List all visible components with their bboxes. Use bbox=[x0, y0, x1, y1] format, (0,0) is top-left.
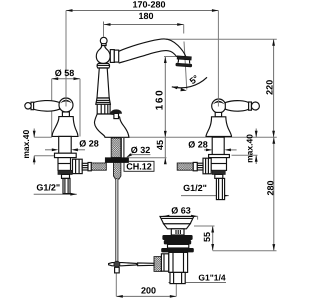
right handle bell bbox=[206, 117, 232, 137]
spout base bell bbox=[94, 114, 128, 137]
svg-text:G1"1/4: G1"1/4 bbox=[198, 273, 225, 283]
left valve body bbox=[58, 158, 71, 171]
drain band 2 bbox=[164, 240, 191, 244]
pop-up rod knob bbox=[111, 110, 122, 119]
right valve side outlet: hex nut bbox=[203, 158, 211, 174]
svg-text:55: 55 bbox=[202, 232, 212, 242]
spout top reference line for 220 bbox=[166, 38, 277, 40]
left valve threaded pipe G1/2 bbox=[91, 163, 106, 170]
right handle stem bbox=[215, 112, 221, 116]
spout column finial vase bbox=[96, 46, 110, 64]
spout aerator outlet bbox=[176, 56, 192, 67]
left handle bell bbox=[52, 117, 78, 137]
left handle ball bbox=[59, 98, 73, 112]
dimension 200 bbox=[116, 269, 176, 298]
left handle lever bbox=[25, 101, 60, 112]
dimension 220 bbox=[264, 39, 275, 137]
label CH.12 bbox=[124, 161, 154, 171]
drain plug bbox=[171, 229, 184, 235]
svg-text:max.40: max.40 bbox=[21, 130, 31, 159]
spout tube bbox=[119, 39, 186, 56]
right valve washer disc bbox=[209, 155, 230, 158]
svg-text:Ø 32: Ø 32 bbox=[131, 145, 151, 155]
dimension Ø58 bbox=[52, 68, 80, 137]
left valve side outlet: hex nut bbox=[73, 159, 83, 173]
left valve collar bbox=[62, 174, 70, 178]
spout column finial knob bbox=[100, 37, 107, 45]
drain tailpipe G1 1/4 bbox=[170, 272, 185, 283]
spout column faceted collar bbox=[97, 104, 110, 114]
pop-up link rod bbox=[138, 263, 154, 266]
right valve tailpipe bbox=[216, 178, 224, 199]
pop-up rod end cap bbox=[115, 267, 120, 273]
bottom reference line bbox=[213, 250, 277, 252]
svg-text:CH.12: CH.12 bbox=[126, 161, 152, 171]
dimension 160 bbox=[154, 57, 179, 138]
dimension Ø28 left bbox=[45, 139, 99, 152]
svg-text:G1/2": G1/2" bbox=[183, 183, 207, 193]
pop-up joint ball bbox=[114, 261, 120, 267]
spout column flare rings bbox=[96, 98, 111, 104]
svg-text:180: 180 bbox=[138, 11, 153, 21]
spout column base flare bbox=[97, 63, 109, 68]
left valve side outlet: fitting bbox=[82, 163, 88, 170]
drain gland nut bbox=[154, 257, 161, 272]
drain band 3 bbox=[161, 248, 194, 252]
spout column shaft bbox=[97, 68, 109, 98]
drain neck bbox=[164, 224, 191, 229]
svg-text:max.40: max.40 bbox=[245, 134, 255, 163]
svg-text:170-280: 170-280 bbox=[132, 0, 165, 10]
drain band 1 bbox=[162, 235, 192, 240]
shank below plate bbox=[114, 163, 121, 179]
left valve lower flange bbox=[58, 170, 72, 174]
right valve cylinder bbox=[212, 137, 224, 154]
right handle ball bbox=[212, 99, 226, 113]
svg-text:45: 45 bbox=[155, 140, 165, 150]
svg-text:200: 200 bbox=[141, 286, 156, 296]
left valve cylinder bbox=[59, 136, 71, 153]
drain light ring bbox=[168, 244, 189, 248]
svg-text:160: 160 bbox=[154, 89, 165, 111]
drain side port bbox=[161, 254, 168, 271]
dimension 280 bbox=[265, 137, 275, 250]
left valve washer disc bbox=[55, 153, 77, 157]
svg-text:Ø 28: Ø 28 bbox=[188, 140, 208, 150]
label G1/2 left bbox=[34, 182, 77, 195]
spout joint rings bbox=[110, 50, 114, 63]
svg-text:220: 220 bbox=[264, 80, 274, 95]
drain rim bbox=[160, 216, 194, 223]
svg-text:Ø 28: Ø 28 bbox=[79, 139, 99, 149]
pop-up rod beside shank bbox=[121, 138, 124, 158]
dimension max.40 left bbox=[21, 129, 36, 165]
left valve tailpipe bbox=[63, 178, 70, 193]
pop-up cross lever bbox=[109, 263, 137, 266]
drain body bbox=[169, 252, 188, 272]
dimension 55 bbox=[194, 226, 215, 251]
svg-text:Ø 63: Ø 63 bbox=[171, 206, 191, 216]
label G1/2 right bbox=[181, 183, 229, 197]
label Ø32 bbox=[127, 145, 151, 157]
right valve threaded pipe G1/2 bbox=[177, 163, 193, 170]
left handle stem bbox=[62, 112, 69, 117]
spout threaded shank bbox=[111, 138, 121, 158]
dimension 180 bbox=[104, 11, 187, 90]
5 degree arc bbox=[172, 73, 207, 91]
label G1"1/4 bbox=[169, 273, 227, 284]
right valve collar bbox=[215, 174, 223, 178]
deck reference line bbox=[129, 136, 277, 138]
dimension Ø63 bbox=[163, 206, 198, 220]
dimension Ø28 right bbox=[188, 140, 236, 152]
right valve body bbox=[211, 158, 227, 171]
right valve lower flange bbox=[212, 170, 225, 174]
pop-up lift rod bbox=[116, 179, 118, 262]
dimension max.40 right bbox=[232, 129, 258, 165]
dimension 45 bbox=[129, 137, 167, 164]
right valve side outlet: fitting bbox=[197, 163, 203, 170]
svg-text:Ø 58: Ø 58 bbox=[55, 68, 75, 78]
svg-text:G1/2": G1/2" bbox=[36, 182, 60, 192]
dimension 170-280 top bbox=[66, 0, 218, 98]
spout mounting plate bbox=[105, 158, 128, 163]
right handle lever bbox=[225, 101, 259, 112]
